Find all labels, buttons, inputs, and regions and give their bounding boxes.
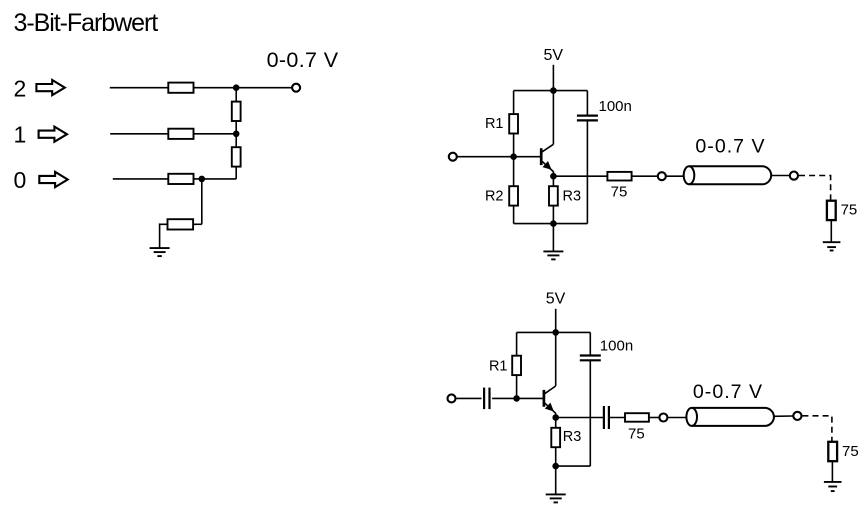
transistor Q1 (A)	[541, 144, 553, 171]
wire top rail (B)	[517, 331, 591, 333]
input arrow bit 1	[39, 127, 67, 142]
wire coax to terminal (A)	[771, 175, 789, 177]
wire ground stem (A)	[552, 224, 554, 252]
ground (B)	[546, 494, 566, 502]
svg-text:75: 75	[611, 183, 628, 200]
node supply rail (A)	[550, 87, 557, 94]
wire bit0 resistor to node0	[194, 178, 202, 180]
wire rail to 100n (B)	[589, 332, 591, 355]
wire ground stem (B)	[555, 466, 557, 494]
wire R3 to bottom rail (A)	[552, 206, 554, 224]
wire emitter node to R3 (A)	[552, 176, 554, 186]
svg-text:0: 0	[14, 167, 27, 193]
termination resistor 2R	[168, 219, 194, 229]
input arrow bit 0	[39, 172, 67, 187]
node emitter / output (B)	[552, 414, 559, 421]
svg-text:R2: R2	[485, 188, 504, 204]
wire termination R to node0 column	[193, 223, 202, 225]
resistor R3 (A)	[549, 186, 558, 205]
wire rail to 100n (A)	[586, 91, 588, 116]
ground (A)	[543, 251, 563, 259]
wire base node to transistor (A)	[514, 156, 542, 158]
wire node0 to ladder column	[202, 178, 236, 180]
dashed link to termination (B)	[802, 416, 832, 442]
ladder resistor R (1-0)	[232, 147, 241, 166]
wire node1 down to ladder R	[235, 134, 237, 148]
node bit 1 junction	[233, 131, 240, 138]
node supply rail (B)	[552, 329, 559, 336]
wire bit1 input to resistor	[110, 133, 168, 135]
coax cable (A)	[684, 166, 772, 184]
resistor R1 (B)	[512, 356, 521, 375]
wire R1 to base node (B)	[516, 375, 518, 398]
terminal coax-out terminal (B)	[793, 412, 801, 420]
svg-text:0-0.7 V: 0-0.7 V	[693, 381, 763, 403]
capacitor 100n (B)	[580, 356, 601, 361]
wire terminal to coax (A)	[666, 175, 683, 177]
wire bit1 resistor to node1	[194, 133, 237, 135]
ground termination (B)	[824, 482, 842, 491]
resistor R3 (B)	[551, 428, 560, 447]
resistor bit 2 (2R)	[168, 83, 193, 93]
node ground rail (B)	[552, 463, 559, 470]
transistor Q1 (B)	[544, 386, 556, 413]
wire R3 to bottom node (B)	[555, 447, 557, 466]
wire 5V stem (A)	[552, 65, 554, 91]
node bit 2 / output junction	[233, 84, 240, 91]
wire 75R to terminal (A)	[632, 175, 658, 177]
node emitter / output (A)	[550, 173, 557, 180]
wire termination R to ground corner	[159, 223, 168, 225]
wire coupling cap to 75R (B)	[609, 417, 625, 419]
wire R1 to base node (A)	[513, 134, 515, 157]
wire input terminal to base node (A)	[457, 156, 513, 158]
wire collector to rail (A)	[552, 91, 554, 145]
svg-text:75: 75	[628, 425, 645, 442]
wire emitter node to 75R (A)	[553, 175, 607, 177]
wire input terminal to coupling cap (B)	[456, 397, 482, 399]
wire top rail (A)	[514, 90, 588, 92]
svg-text:100n: 100n	[600, 337, 633, 354]
wire ladder R to node1	[235, 121, 237, 134]
wire collector to rail (B)	[555, 332, 557, 386]
resistor 75 series (A)	[607, 172, 631, 181]
wire bottom rail (A)	[514, 223, 588, 225]
wire emitter to output node (B)	[555, 413, 557, 417]
svg-text:75: 75	[841, 202, 858, 219]
coupling capacitor input (B)	[484, 388, 489, 410]
wire coupling cap to base (B)	[492, 397, 544, 399]
wire ladder R down to row0 level	[235, 167, 237, 179]
svg-text:3-Bit-Farbwert: 3-Bit-Farbwert	[14, 9, 159, 37]
svg-text:R3: R3	[563, 429, 582, 445]
svg-text:0-0.7 V: 0-0.7 V	[267, 48, 339, 72]
terminal coax-in terminal (A)	[658, 172, 666, 180]
wire node0 down to termination R	[201, 179, 203, 224]
svg-text:1: 1	[14, 122, 27, 148]
coupling capacitor output (B)	[604, 406, 609, 429]
svg-text:0-0.7 V: 0-0.7 V	[695, 135, 765, 157]
wire emitter to output node (A)	[552, 171, 554, 176]
wire coax to terminal (B)	[774, 415, 793, 417]
node base (B)	[513, 395, 520, 402]
input arrow bit 2	[36, 80, 64, 95]
coax cable (B)	[686, 408, 774, 426]
svg-text:5V: 5V	[546, 290, 566, 307]
svg-text:100n: 100n	[599, 98, 632, 115]
wire emitter node to R3 (B)	[555, 418, 557, 428]
resistor R2 (A)	[509, 186, 518, 205]
svg-text:R1: R1	[485, 116, 504, 132]
termination resistor 75 (A)	[827, 201, 836, 220]
svg-text:75: 75	[842, 443, 859, 460]
resistor bit 0 (2R)	[168, 174, 193, 184]
terminal coax-out terminal (A)	[790, 172, 798, 180]
resistor 75 series (B)	[625, 413, 649, 422]
wire bottom rail (B)	[556, 465, 591, 467]
wire rail to R1 (A)	[513, 91, 515, 114]
ladder resistor R (2-1)	[232, 102, 241, 121]
wire base node to R2 (A)	[513, 157, 515, 186]
wire 100n to bottom rail (A)	[586, 120, 588, 223]
wire termination R to ground (A)	[830, 220, 832, 242]
resistor bit 1 (2R)	[168, 129, 193, 139]
wire node2 down to ladder R	[235, 88, 237, 102]
wire 5V stem (B)	[555, 309, 557, 333]
terminal input (B)	[448, 394, 456, 402]
resistor R1 (A)	[509, 114, 518, 133]
svg-text:R3: R3	[563, 188, 582, 204]
terminal coax-in terminal (B)	[659, 414, 667, 422]
dashed link to termination (A)	[799, 176, 831, 201]
termination resistor 75 (B)	[828, 442, 837, 461]
svg-text:2: 2	[14, 75, 27, 101]
wire ground drop	[159, 223, 161, 248]
wire terminal to coax (B)	[668, 417, 687, 419]
node base (A)	[510, 153, 517, 160]
node ground rail (A)	[550, 220, 557, 227]
wire bit0 input to resistor	[113, 178, 169, 180]
terminal input (A)	[449, 153, 457, 161]
ground (DAC)	[150, 248, 170, 256]
wire bit2 resistor to output node	[194, 87, 292, 89]
svg-text:5V: 5V	[544, 47, 564, 64]
node bit 0 junction	[199, 176, 206, 183]
capacitor 100n (A)	[577, 116, 598, 121]
wire 100n to bottom rail (B)	[589, 360, 591, 466]
wire R2 to bottom rail (A)	[513, 206, 515, 224]
ground termination (A)	[823, 242, 841, 250]
terminal output	[292, 84, 300, 92]
svg-text:R1: R1	[489, 359, 508, 375]
wire rail to R1 (B)	[516, 332, 518, 355]
wire 75R to terminal (B)	[649, 417, 659, 419]
wire emitter node to coupling cap (B)	[556, 417, 604, 419]
wire termination R to ground (B)	[831, 461, 833, 482]
wire bit2 input to resistor	[110, 87, 169, 89]
